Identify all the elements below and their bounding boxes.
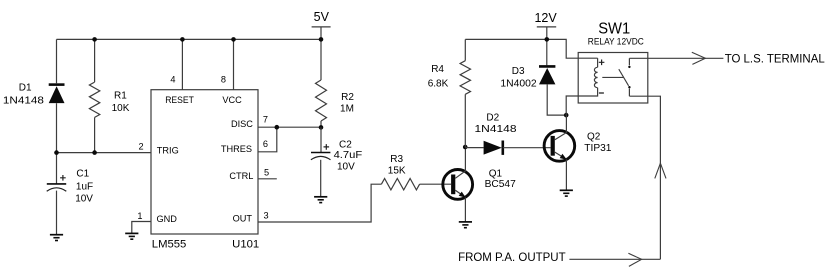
svg-text:VCC: VCC [222,95,242,105]
svg-text:D2: D2 [486,113,499,124]
svg-text:10K: 10K [112,103,130,114]
resistor R4 [464,39,466,60]
wire from P.A. output [569,258,660,260]
relay switch blade [619,69,629,86]
transistor Q2 TIP31 [544,131,575,162]
resistor R3 [381,179,419,190]
svg-text:5V: 5V [314,10,330,24]
svg-text:THRES: THRES [221,144,252,154]
svg-text:10V: 10V [337,162,355,173]
svg-text:7: 7 [263,114,268,124]
svg-text:R3: R3 [390,154,403,165]
svg-text:SW1: SW1 [598,20,630,37]
node rail junction R1 [92,37,97,42]
relay switch contacts [628,58,630,65]
svg-text:R4: R4 [431,64,444,75]
svg-text:C1: C1 [76,169,89,180]
svg-text:DISC: DISC [231,119,253,129]
svg-text:2: 2 [138,142,143,152]
arrow on L.S. wire [692,52,706,64]
coil - label [599,92,604,94]
op-amp U1 : IC LM555 U101 body [151,90,258,234]
pin 3 OUT wire [258,184,381,222]
ground (Q1 emitter) [459,221,472,223]
node pin7/6 junction [275,125,280,130]
svg-text:RELAY 12VDC: RELAY 12VDC [588,36,645,46]
svg-text:TIP31: TIP31 [584,143,612,154]
svg-text:8: 8 [221,75,226,85]
svg-text:CTRL: CTRL [229,171,253,181]
pin 1 GND wire [132,222,151,234]
svg-text:4: 4 [170,75,175,85]
svg-text:D3: D3 [512,66,525,77]
capacitor C2 [320,127,322,152]
wire left vertical (D1 branch) [56,39,58,184]
svg-text:LM555: LM555 [152,239,187,251]
node D3/relay/Q2 junction [564,113,569,118]
svg-text:1: 1 [137,211,142,221]
wire 12V rail [465,39,597,58]
power 12V supply [537,26,556,28]
svg-text:OUT: OUT [233,214,253,224]
relay armature link [602,76,624,78]
transistor Q1 BC547 [443,170,473,200]
wire top 5V rail [57,38,322,40]
arrow up on right wire [655,163,666,178]
ground (Q2 emitter) [560,189,573,191]
svg-text:RESET: RESET [165,95,194,105]
power 5V supply [312,26,331,28]
svg-text:6.8K: 6.8K [428,79,449,90]
svg-text:5: 5 [264,167,269,177]
svg-text:1N4148: 1N4148 [475,124,517,135]
pin 7 DISC wire [258,126,321,128]
capacitor C1 [47,183,66,185]
diode D2 1N4148 [465,147,483,149]
svg-text:12V: 12V [534,11,557,25]
svg-text:BC547: BC547 [485,179,516,190]
svg-text:15K: 15K [388,166,406,177]
svg-text:TO L.S. TERMINAL: TO L.S. TERMINAL [725,52,825,66]
wire pin 4 RESET to rail [181,39,183,89]
resistor R1 [94,39,96,82]
pin 6 THRES wire [258,127,277,152]
wire to L.S. terminal [629,57,723,59]
svg-text:D1: D1 [19,83,32,94]
diode D1 [49,83,65,86]
svg-text:GND: GND [157,214,178,224]
arrow on P.A. wire [628,253,641,266]
relay coil [597,58,599,67]
coil + label [599,60,605,66]
svg-text:1N4148: 1N4148 [3,96,44,107]
svg-text:Q2: Q2 [587,131,601,142]
svg-text:FROM P.A. OUTPUT: FROM P.A. OUTPUT [458,250,566,264]
relay SW1 box [578,53,648,104]
pin 5 CTRL stub [258,178,277,180]
svg-text:4.7uF: 4.7uF [334,150,363,161]
wire TRIG row [57,152,152,154]
svg-text:U101: U101 [232,239,259,251]
svg-text:1uF: 1uF [76,182,93,193]
svg-text:1M: 1M [340,104,354,115]
ground (C2) [314,196,327,198]
svg-text:3: 3 [264,211,269,221]
diode D3 1N4002 [539,65,555,68]
svg-text:R2: R2 [341,92,354,103]
svg-text:TRIG: TRIG [157,145,179,155]
wire relay contact down [629,96,660,259]
wire pin 8 VCC to rail [233,39,235,89]
svg-text:1N4002: 1N4002 [500,78,537,89]
resistor R2 [316,80,327,121]
node Q1 collector junction [463,145,468,150]
node R2/C2/pin7 junction [319,125,324,130]
node TRIG junctions [54,150,59,155]
ground (pin1) [125,232,138,234]
svg-text:6: 6 [263,139,268,149]
svg-text:10V: 10V [75,194,93,205]
ground (C1) [50,234,63,236]
svg-text:R1: R1 [114,91,127,102]
